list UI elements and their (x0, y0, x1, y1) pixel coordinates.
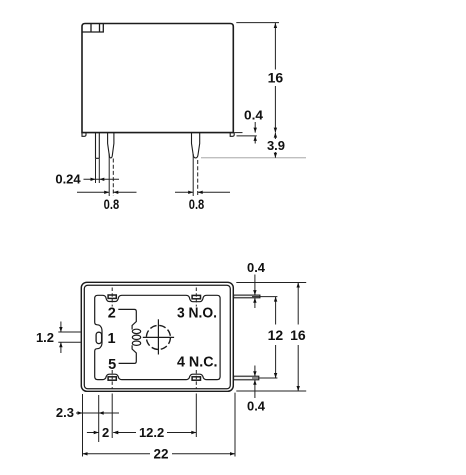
dimension 22 (case width) (83, 447, 236, 462)
svg-text:5: 5 (108, 357, 116, 373)
svg-text:12: 12 (268, 327, 284, 343)
circle crosshair horizontal (143, 336, 174, 338)
svg-text:0.24: 0.24 (55, 172, 81, 187)
dimension 2.3 (56, 405, 119, 420)
dashed center line pin 3 (195, 288, 197, 307)
svg-text:2: 2 (102, 425, 109, 440)
coil leader wire from pin 2 (118, 309, 136, 329)
bottom extension line pin1 column (98, 395, 100, 442)
svg-text:1: 1 (107, 331, 115, 347)
terminal pad pin 5 (108, 377, 116, 380)
armature circle (dashed) (146, 325, 170, 349)
dimension 0.24 (55, 172, 119, 187)
side terminal pin (bottom right) (234, 376, 259, 380)
dashed center line pin 2 (111, 288, 113, 307)
svg-text:16: 16 (290, 327, 306, 343)
circle crosshair vertical (157, 319, 159, 354)
pin 1 (thin coil pin, side view) (96, 133, 100, 159)
dimension 3.9 (pin length) (267, 133, 285, 158)
dimension 16 (case height, side view) (268, 23, 284, 133)
coil winding symbol (132, 329, 140, 345)
relay case outline (side view) (82, 24, 233, 133)
svg-text:0.4: 0.4 (244, 108, 264, 123)
dimension 0.4 (standoff, side view) (244, 108, 264, 144)
pin 3/4 (0.8 terminal, side view) (192, 133, 200, 158)
dimension 0.8 (right) (175, 191, 230, 212)
dimension 12.2 (113, 425, 196, 440)
inner case outline (bottom view) (84, 285, 230, 389)
pin 1 oblong hole (96, 332, 102, 343)
pin tip line (gray) (201, 157, 306, 159)
extension line case bottom (right) (236, 390, 306, 392)
svg-text:1.2: 1.2 (36, 330, 54, 345)
bottom extension line pin2/5 column (111, 394, 113, 439)
dimension 1.2 (36, 322, 63, 354)
right standoff foot (230, 133, 234, 137)
dimension 16 (case height, bottom view) (290, 283, 306, 392)
dimension 2 (87, 425, 118, 440)
molded base contour with terminal notches (95, 295, 220, 379)
extension lines pin 2/5 width (109, 154, 113, 197)
svg-text:3.9: 3.9 (267, 138, 285, 153)
dimension 0.4 (bottom side pin) (247, 366, 266, 414)
terminal pad pin 3 (192, 295, 200, 298)
dimension 0.8 (left) (77, 191, 137, 212)
extension lines pin 3/4 width (193, 154, 198, 196)
svg-text:0.8: 0.8 (104, 196, 120, 212)
svg-text:3 N.O.: 3 N.O. (177, 306, 217, 322)
terminal pad pin 4 (192, 377, 200, 380)
dashed center line pin 4 (195, 370, 197, 389)
svg-text:0.8: 0.8 (189, 196, 205, 212)
outer case outline (bottom view) (81, 282, 233, 391)
side terminal pin (top right) (234, 295, 260, 298)
dimension 12 (pin row spacing) (268, 297, 284, 378)
svg-text:2: 2 (108, 306, 116, 322)
case top-left vent tab (82, 24, 103, 33)
extension line top pin centerline (252, 296, 277, 298)
dashed center line pin 5 (111, 370, 113, 389)
bottom extension line case left (82, 394, 84, 457)
dimension 0.4 (top side pin) (247, 260, 266, 308)
bottom extension line case right (234, 393, 236, 457)
extension line top of case (236, 22, 279, 24)
coil leader wire to pin 5 (119, 345, 137, 363)
terminal pad pin 2 (108, 295, 116, 298)
svg-text:4 N.C.: 4 N.C. (177, 354, 218, 370)
left standoff foot (82, 133, 86, 137)
svg-text:22: 22 (153, 447, 168, 462)
svg-text:0.4: 0.4 (247, 260, 266, 275)
extension line foot bottom (right) (237, 135, 257, 137)
pin 2/5 (0.8 terminal, side view) (108, 133, 114, 158)
extension line bottom pin centerline (252, 377, 277, 379)
extension lines 1.2 (pin1 hole) (58, 332, 81, 342)
svg-text:2.3: 2.3 (56, 405, 74, 420)
svg-text:0.4: 0.4 (247, 399, 266, 414)
extension line bottom of case (right) (235, 132, 243, 134)
bottom extension line pin3/4 column (195, 394, 197, 438)
svg-text:12.2: 12.2 (139, 425, 164, 440)
extension line case top (right) (236, 282, 306, 284)
extension lines pin1 width (96, 159, 100, 183)
svg-text:16: 16 (268, 70, 284, 86)
